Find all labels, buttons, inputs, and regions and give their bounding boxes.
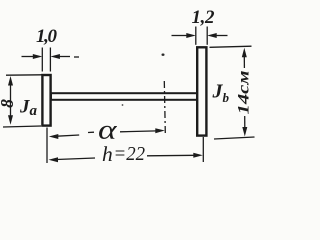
- dimension 1,0 trailing dash: [74, 56, 79, 58]
- dimension 8 up arrow: [8, 76, 13, 86]
- centerline (dash-dot) through web: [164, 81, 165, 133]
- svg-text:=22: =22: [114, 143, 146, 165]
- left flange bar: [42, 75, 50, 126]
- dimension 14cm up arrow: [242, 48, 247, 58]
- svg-text:8: 8: [0, 99, 17, 108]
- dimension 8 line: [10, 84, 12, 117]
- extension line below right bar: [202, 137, 204, 162]
- svg-text:h: h: [102, 142, 113, 166]
- dimension 8 down arrow: [8, 115, 13, 125]
- svg-text:14см: 14см: [235, 70, 252, 114]
- dimension h right arrow: [147, 154, 195, 157]
- svg-text:α: α: [98, 115, 118, 145]
- dimension 14cm top extension line: [210, 46, 252, 47]
- dimension 1,0 right arrow: [58, 56, 70, 58]
- dimension 1,0 left arrow: [22, 56, 35, 58]
- dimension 1,0 extension line left: [41, 48, 43, 72]
- dimension 1,0 extension line right: [49, 48, 51, 72]
- web (horizontal bar): [51, 93, 197, 100]
- scan speck 2: [162, 54, 165, 56]
- dimension 14cm line top part: [243, 56, 245, 68]
- svg-text:1,2: 1,2: [192, 7, 216, 28]
- dimension 1,2 extension line right: [206, 27, 208, 45]
- dimension 1,2 left arrow: [172, 35, 188, 37]
- extension line below left bar: [46, 128, 48, 164]
- svg-text:1,0: 1,0: [36, 26, 58, 47]
- dimension 1,2 right arrow: [215, 35, 228, 37]
- dimension h left arrow: [49, 157, 59, 162]
- dimension 8 bottom extension line: [3, 126, 41, 127]
- dimension a left arrow: [49, 134, 59, 139]
- dimension 14cm down arrow: [242, 127, 247, 137]
- dimension a leading dash: [88, 131, 94, 133]
- dimension 8 top extension line: [6, 74, 42, 76]
- dimension 14cm bottom extension line: [214, 137, 255, 139]
- scan speck: [122, 104, 124, 106]
- dimension 14cm line bottom part: [244, 116, 246, 128]
- dimension a right arrow: [120, 130, 157, 133]
- dimension 1,2 extension line left: [195, 27, 197, 45]
- right flange bar: [197, 47, 206, 135]
